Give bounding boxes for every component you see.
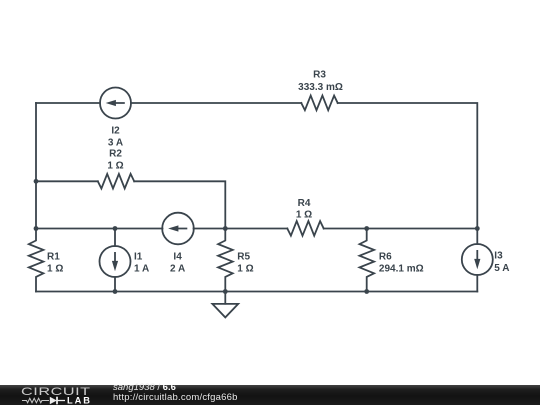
node dot B (left rail middle) (34, 226, 39, 231)
wire middle I4-R4 (194, 228, 288, 230)
current source I1 circle (100, 246, 131, 277)
svg-text:R5: R5 (237, 252, 250, 263)
svg-text:R4: R4 (298, 198, 311, 209)
I4 arrow (168, 225, 187, 231)
wire R2 row left (36, 180, 98, 182)
I3 arrow (474, 250, 480, 269)
logo diode (50, 397, 57, 405)
current source I2 circle (100, 88, 131, 119)
node dot H (ground node) (223, 289, 228, 294)
svg-text:294.1 mΩ: 294.1 mΩ (379, 263, 424, 274)
resistor R4 (287, 221, 323, 236)
wire middle right (324, 228, 478, 230)
svg-text:R6: R6 (379, 252, 392, 263)
node dot G (I1 bottom) (113, 289, 118, 294)
svg-text:333.3 mΩ: 333.3 mΩ (298, 82, 343, 93)
svg-text:R2: R2 (109, 148, 122, 159)
svg-text:1 A: 1 A (134, 263, 149, 274)
resistor R3 (301, 96, 337, 111)
ground stub (224, 292, 226, 304)
resistor R5 (218, 229, 233, 292)
svg-text:I1: I1 (134, 252, 143, 263)
footer bar (0, 385, 540, 405)
wire top middle (I2 to R3) (131, 102, 301, 104)
node dot J (R6 bottom) (364, 289, 369, 294)
wire top-left horizontal (36, 102, 100, 104)
node dot A (left rail R2 junction) (34, 179, 39, 184)
svg-text:I3: I3 (494, 250, 503, 261)
svg-text:1 Ω: 1 Ω (237, 263, 253, 274)
logo wire with resistor (22, 398, 49, 402)
svg-text:R1: R1 (47, 252, 60, 263)
node dot D (R5 top) (223, 226, 228, 231)
wire middle left (36, 228, 163, 230)
current source I3 circle (462, 244, 493, 275)
svg-text:1 Ω: 1 Ω (296, 210, 312, 221)
credit text (113, 383, 238, 403)
ground triangle (212, 304, 238, 318)
resistor R1 (29, 229, 44, 292)
current source I4 circle (162, 213, 194, 245)
resistor R6 (360, 229, 375, 292)
svg-text:I2: I2 (111, 125, 120, 136)
svg-text:1 Ω: 1 Ω (107, 160, 123, 171)
wire R2 row right down to middle (134, 181, 225, 228)
svg-text:R3: R3 (313, 70, 326, 81)
wire left rail (35, 103, 37, 229)
svg-text:I4: I4 (173, 252, 182, 263)
svg-text:1 Ω: 1 Ω (47, 263, 63, 274)
node dot F (right rail middle) (475, 226, 480, 231)
svg-text:2 A: 2 A (170, 263, 185, 274)
wire top-right to right rail (338, 103, 478, 229)
I2 arrow (106, 100, 125, 106)
resistor R2 (98, 174, 134, 189)
svg-text:3 A: 3 A (108, 138, 123, 149)
current source I1 wires (114, 229, 116, 247)
svg-text:5 A: 5 A (494, 263, 509, 274)
wire bottom rail (36, 291, 477, 293)
I1 arrow (112, 252, 118, 271)
current source I3 wires (476, 229, 478, 245)
svg-text:LAB: LAB (67, 396, 92, 405)
node dot E (R6 top) (364, 226, 369, 231)
node dot C (I1 top) (113, 226, 118, 231)
